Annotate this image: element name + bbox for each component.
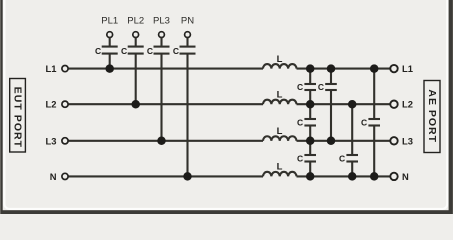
junction PL1/L1 (105, 64, 114, 73)
capacitor C (L2-N, column C) (346, 155, 358, 162)
terminal L1 right (390, 65, 397, 72)
svg-text:L: L (277, 54, 283, 65)
junction column B / L3 (327, 137, 336, 146)
junction column D / N (370, 172, 379, 181)
svg-text:PL2: PL2 (127, 15, 144, 26)
svg-text:C: C (173, 46, 179, 56)
wire L3 left segment (68, 140, 263, 142)
svg-text:C: C (318, 82, 324, 92)
svg-text:C: C (121, 46, 127, 56)
inductor L (line L3) (263, 136, 297, 141)
capacitor C (L1-N, column D) (368, 119, 380, 126)
capacitor C (PL1) (102, 47, 118, 54)
capacitor C (L2-L3, column A) (304, 119, 316, 126)
svg-text:L2: L2 (46, 99, 57, 110)
inductor L (line L1) (263, 64, 297, 69)
wire column C upper (L2 to cap) (351, 104, 353, 154)
svg-text:L1: L1 (402, 63, 413, 74)
wire column C cap to N (351, 162, 353, 176)
panel frame left edge shade (0, 0, 2, 214)
capacitor C (L3-N, column A) (304, 155, 316, 162)
wire N right segment (297, 175, 391, 177)
svg-text:N: N (50, 171, 57, 182)
capacitor C (L1-L2, column A) (304, 84, 316, 90)
capacitor C (PN) (180, 47, 196, 54)
terminal L1 left (62, 66, 68, 72)
svg-text:L2: L2 (402, 99, 413, 110)
wire L2 right segment (297, 103, 391, 105)
junction column A / L2 (306, 100, 315, 109)
svg-text:PL3: PL3 (153, 15, 170, 26)
capacitor C (L1-L3, column B) (325, 84, 337, 90)
svg-text:L: L (277, 162, 283, 173)
wire PL2 to capacitor (135, 37, 137, 45)
terminal PL2 (133, 32, 139, 38)
svg-text:L: L (277, 89, 283, 100)
svg-text:C: C (297, 117, 303, 127)
junction column A / L3 (306, 137, 315, 146)
svg-text:C: C (339, 153, 345, 163)
wire column A cap to L3 (309, 126, 311, 154)
terminal L2 right (390, 101, 397, 108)
wire column D cap to N (373, 126, 375, 176)
junction column A / N (306, 172, 315, 181)
svg-text:C: C (95, 46, 101, 56)
inductor L (line L2) (263, 100, 297, 105)
wire PL3 capacitor to L3 (160, 54, 162, 140)
wire column A cap to N (309, 162, 311, 176)
wire column B cap to L3 (330, 91, 332, 141)
wire column D upper (L1 to cap) (373, 69, 375, 119)
wire L1 left segment (68, 68, 263, 70)
junction column A / L1 (306, 64, 315, 73)
inductor L (line N) (263, 172, 297, 177)
wire PL1 to capacitor (109, 37, 111, 45)
wire PN to capacitor (186, 37, 188, 45)
wire PL1 capacitor to L1 (109, 54, 111, 68)
junction column D / L1 (370, 64, 379, 73)
wire L1 right segment (297, 68, 391, 70)
svg-text:AE PORT: AE PORT (426, 89, 438, 143)
panel frame border left (0, 0, 3, 214)
svg-text:L1: L1 (46, 63, 57, 74)
terminal PL3 (159, 32, 165, 38)
svg-text:C: C (297, 82, 303, 92)
terminal PL1 (107, 32, 113, 38)
junction column B / L1 (327, 64, 336, 73)
svg-text:C: C (361, 117, 367, 127)
wire PN capacitor to N (186, 54, 188, 176)
wire N left segment (68, 175, 263, 177)
wire PL2 capacitor to L2 (135, 54, 137, 104)
svg-text:PL1: PL1 (101, 15, 118, 26)
svg-text:C: C (297, 153, 303, 163)
panel frame right edge shade (451, 0, 453, 214)
terminal L2 left (62, 101, 68, 107)
svg-text:C: C (147, 46, 153, 56)
junction column C / N (348, 172, 357, 181)
capacitor C (PL2) (128, 47, 144, 54)
wire column A cap to L2 (309, 91, 311, 118)
svg-text:L3: L3 (46, 135, 57, 146)
svg-text:L3: L3 (402, 135, 413, 146)
svg-text:L: L (277, 126, 283, 137)
terminal N right (390, 173, 397, 180)
junction column C / L2 (348, 100, 357, 109)
terminal PN (185, 32, 191, 38)
wire column B upper (L1 to cap) (330, 69, 332, 84)
junction PL3/L3 (157, 137, 166, 146)
svg-text:EUT PORT: EUT PORT (12, 87, 24, 148)
junction PL2/L2 (131, 100, 140, 109)
junction PN/N (183, 172, 192, 181)
svg-text:N: N (402, 171, 409, 182)
panel frame border right (449, 0, 453, 214)
AE PORT box (424, 81, 440, 153)
terminal N left (62, 173, 68, 179)
panel frame border bottom (0, 210, 453, 214)
svg-text:PN: PN (181, 15, 194, 26)
terminal L3 left (62, 138, 68, 144)
capacitor C (PL3) (154, 47, 170, 54)
wire PL3 to capacitor (160, 37, 162, 45)
wire L3 right segment (297, 140, 391, 142)
wire L2 left segment (68, 103, 263, 105)
wire column A upper (L1 to cap) (309, 69, 311, 84)
EUT PORT box (10, 79, 26, 153)
terminal L3 right (390, 137, 397, 144)
